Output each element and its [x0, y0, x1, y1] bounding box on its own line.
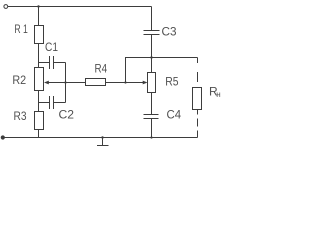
svg-text:C4: C4	[167, 108, 182, 122]
wire bottom rail	[4, 137, 198, 139]
wire R3 bottom to bottom rail	[38, 130, 40, 138]
wire branch to C2	[39, 102, 50, 104]
wire down to R1	[38, 7, 40, 26]
label RH	[209, 85, 221, 100]
wire dashed down to RH	[197, 63, 199, 88]
wire R1 bottom to R2 top	[38, 44, 40, 68]
wire R4 to R5 wiper	[105, 82, 144, 84]
svg-text:R 1: R 1	[14, 22, 28, 36]
resistor RH (load)	[193, 88, 202, 110]
capacitor C2	[50, 96, 54, 109]
wiper arrow of R5	[143, 81, 148, 85]
wire C2 right to connector	[54, 102, 66, 104]
potentiometer R5	[148, 73, 156, 93]
capacitor C1	[50, 56, 54, 69]
svg-text:R4: R4	[95, 62, 108, 76]
wire vertical connector C1-C2	[65, 63, 67, 103]
svg-text:R5: R5	[165, 74, 179, 88]
node connector crosses wiper wire	[64, 81, 66, 83]
input terminal (top left)	[4, 5, 8, 9]
node C4 / bottom rail junction	[150, 136, 152, 138]
resistor R3	[35, 112, 44, 130]
output terminal (bottom left)	[1, 136, 4, 139]
potentiometer R2	[35, 68, 44, 91]
svg-text:C1: C1	[45, 40, 58, 54]
wire bottom corner solid	[197, 131, 199, 138]
capacitor C4	[144, 115, 159, 119]
node ground junction	[101, 136, 103, 138]
svg-text:C2: C2	[59, 108, 75, 122]
wire C4 bottom to bottom rail	[151, 119, 153, 138]
ground	[97, 138, 109, 146]
svg-text:R2: R2	[12, 73, 26, 87]
node tap junction on wiper wire	[124, 81, 126, 83]
wire load branch: top corner solid	[197, 58, 199, 64]
capacitor C3	[144, 31, 160, 35]
svg-text:C3: C3	[162, 25, 177, 39]
node bracket crosses R5 column	[150, 56, 152, 58]
resistor R1	[35, 26, 44, 44]
node top rail / R1 junction	[37, 5, 39, 7]
wire R5 bottom to C4	[151, 93, 153, 115]
wire top rail	[8, 6, 152, 8]
svg-text:н: н	[216, 90, 220, 99]
wire wiper to R4	[49, 82, 86, 84]
wire C1 right to connector	[54, 62, 66, 64]
wire bracket up and across to load branch	[126, 58, 198, 83]
wire branch to C1	[39, 62, 50, 64]
wire R2 bottom to R3 top	[38, 91, 40, 112]
resistor R4	[86, 79, 106, 86]
wire C3 bottom to R5 top	[151, 35, 153, 73]
wire RH bottom solid stub	[197, 110, 199, 115]
wire top rail corner down to C3	[151, 7, 153, 31]
svg-text:R3: R3	[14, 109, 27, 123]
wiper arrow of R2	[44, 81, 49, 85]
wire dashed down to corner	[197, 115, 199, 131]
